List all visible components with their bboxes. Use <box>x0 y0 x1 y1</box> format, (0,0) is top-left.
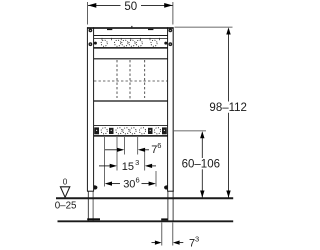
left foot <box>87 218 100 220</box>
top bar bottom line <box>94 35 168 37</box>
rail 1 end bolts <box>94 42 97 45</box>
rail 2 end fittings <box>94 127 99 134</box>
dimension 50: extension lines <box>88 2 173 25</box>
top bar slot marks <box>107 29 112 30</box>
frame top edge <box>87 27 174 29</box>
dim 98-112 reference line <box>175 26 233 28</box>
dimension 50: arrowheads <box>88 3 96 8</box>
dim 7-6 row <box>105 149 117 151</box>
upper crossbar (rail 1) <box>94 38 168 40</box>
dim 15-3 row <box>99 165 110 167</box>
rail 1 notch ticks <box>102 38 160 40</box>
frame top center tick <box>131 26 132 27</box>
dim 98-112 line <box>228 29 230 102</box>
dim 60-106 line <box>201 133 203 159</box>
rail screws <box>89 29 173 47</box>
svg-text:98–112: 98–112 <box>209 102 247 114</box>
rail 1 hole circles (dotted) <box>101 40 157 46</box>
dim 30-6 row <box>105 182 112 186</box>
mounting panel <box>94 58 168 60</box>
dim 60-106 reference line <box>174 130 206 132</box>
finished floor line <box>56 197 233 199</box>
right foot <box>161 218 167 220</box>
svg-text:6: 6 <box>136 175 140 184</box>
left leg tube end <box>87 190 94 192</box>
svg-text:0–25: 0–25 <box>55 201 77 212</box>
right leg tube end <box>167 190 174 192</box>
lower crossbar (rail 2) <box>94 125 168 127</box>
raw floor line <box>58 220 234 222</box>
svg-text:50: 50 <box>124 1 137 13</box>
svg-text:3: 3 <box>195 235 199 244</box>
dim 7-3 (foot) <box>162 223 173 246</box>
svg-text:60–106: 60–106 <box>182 159 220 171</box>
right leg clamp knob <box>164 185 167 189</box>
svg-text:0: 0 <box>63 178 68 187</box>
rail 2 hole circles (dotted) <box>101 128 160 134</box>
svg-text:6: 6 <box>157 141 161 150</box>
left leg clamp knob <box>94 185 97 189</box>
svg-text:30: 30 <box>123 178 135 190</box>
leg spindles <box>88 191 173 220</box>
panel dashed centre lines <box>94 60 167 101</box>
right rail <box>168 27 174 191</box>
svg-text:3: 3 <box>135 158 139 167</box>
left rail <box>87 27 93 191</box>
svg-text:15: 15 <box>122 161 134 173</box>
lower dims: extension lines <box>105 137 157 187</box>
dimension 50: dimension line <box>88 4 173 6</box>
